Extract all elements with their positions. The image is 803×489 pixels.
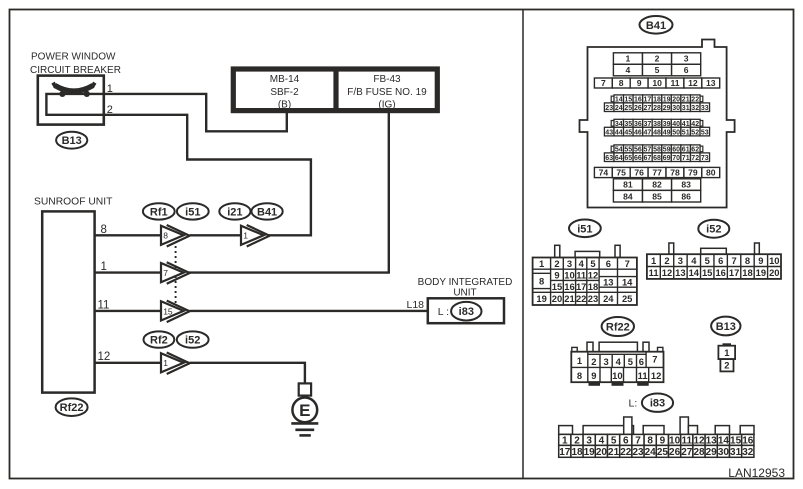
svg-text:28: 28 — [693, 447, 705, 458]
oval Rf22 sunroof connector — [56, 398, 88, 416]
svg-text:75: 75 — [616, 168, 626, 178]
i52 pins 1-10 — [651, 255, 780, 266]
body integrated unit box — [428, 298, 504, 323]
ground bars — [291, 423, 318, 435]
i51 pin 8 — [539, 276, 544, 287]
svg-text:9: 9 — [591, 370, 596, 381]
sunroof unit box — [42, 211, 94, 392]
svg-text:84: 84 — [623, 191, 633, 201]
oval Rf2 — [144, 331, 175, 347]
svg-text:Rf1: Rf1 — [150, 206, 168, 218]
oval i51 pinout title — [569, 220, 601, 238]
svg-text:21: 21 — [608, 447, 620, 458]
svg-text:7: 7 — [625, 258, 630, 269]
svg-text:27: 27 — [644, 105, 652, 112]
svg-text:17: 17 — [576, 281, 586, 292]
svg-text:74: 74 — [599, 168, 609, 178]
svg-text:9: 9 — [758, 255, 763, 266]
svg-text:i51: i51 — [577, 223, 592, 235]
svg-text:(IG): (IG) — [378, 100, 395, 111]
svg-text:31: 31 — [682, 105, 690, 112]
oval i51 — [177, 203, 209, 219]
svg-text:17: 17 — [729, 267, 739, 278]
svg-text:69: 69 — [663, 155, 671, 162]
svg-text:10: 10 — [612, 370, 622, 381]
svg-text:MB-14: MB-14 — [270, 74, 300, 85]
svg-text:i52: i52 — [706, 224, 721, 236]
oval i52 pinout title — [698, 220, 729, 238]
svg-text:i21: i21 — [227, 206, 242, 218]
wire breaker pin2 to sunroof row8 net — [104, 115, 311, 236]
svg-text:76: 76 — [634, 168, 644, 178]
label BODY INTEGRATED UNIT — [418, 277, 513, 299]
svg-text:86: 86 — [681, 191, 691, 201]
svg-text:80: 80 — [706, 168, 716, 178]
svg-text:L:: L: — [629, 398, 638, 410]
svg-text:24: 24 — [615, 105, 623, 112]
svg-text:L :: L : — [438, 306, 449, 318]
svg-text:1: 1 — [577, 355, 582, 366]
svg-text:5: 5 — [590, 258, 595, 269]
svg-text:32: 32 — [742, 447, 754, 458]
svg-text:1: 1 — [626, 54, 631, 64]
svg-text:SBF-2: SBF-2 — [270, 87, 299, 98]
connector arrow Rf1-i51 pin 7 — [161, 262, 190, 284]
svg-text:3: 3 — [678, 255, 683, 266]
svg-text:11: 11 — [98, 299, 110, 311]
B13 pin 2 — [724, 360, 729, 371]
svg-text:10: 10 — [769, 255, 779, 266]
i83 cells 1-16 — [559, 434, 754, 446]
svg-text:18: 18 — [742, 267, 752, 278]
ground circle E — [292, 398, 317, 423]
B41 cells 14-22 — [611, 95, 703, 104]
B41 cells 74-80 — [594, 167, 719, 177]
oval Rf22 pinout title — [602, 317, 634, 336]
B41 cells 81-83 — [613, 179, 700, 191]
fuse FB-43 labels — [347, 74, 427, 111]
fuse box MB-14 / FB-43 — [233, 69, 437, 111]
svg-text:23: 23 — [605, 105, 613, 112]
svg-text:F/B FUSE NO. 19: F/B FUSE NO. 19 — [347, 87, 427, 98]
svg-text:1: 1 — [101, 261, 107, 273]
svg-text:23: 23 — [588, 293, 598, 304]
B41 cells 63-73 — [604, 153, 709, 162]
svg-text:27: 27 — [681, 447, 693, 458]
svg-text:83: 83 — [681, 180, 691, 190]
svg-text:15: 15 — [702, 267, 712, 278]
label L: oval i83 in box — [438, 302, 482, 321]
svg-text:9: 9 — [637, 78, 642, 88]
svg-text:13: 13 — [706, 78, 716, 88]
svg-text:B13: B13 — [62, 135, 82, 147]
B41 cells 84-86 — [613, 190, 700, 202]
i52 grid lines — [647, 254, 781, 279]
svg-text:22: 22 — [576, 293, 586, 304]
oval Rf1 — [143, 203, 175, 219]
svg-text:85: 85 — [652, 191, 662, 201]
svg-text:3: 3 — [684, 54, 689, 64]
svg-text:8: 8 — [577, 370, 582, 381]
svg-text:B41: B41 — [257, 206, 277, 218]
svg-text:53: 53 — [701, 129, 709, 136]
B41 cells 1-3 — [613, 53, 700, 65]
svg-text:7: 7 — [731, 255, 736, 266]
svg-text:68: 68 — [653, 155, 661, 162]
svg-text:30: 30 — [718, 447, 730, 458]
svg-text:i51: i51 — [185, 206, 200, 218]
svg-text:2: 2 — [554, 258, 559, 269]
svg-text:FB-43: FB-43 — [373, 74, 401, 85]
B41 cells 54-62 — [611, 145, 703, 154]
connector arrow Rf1-i51 pin 8 — [161, 225, 190, 247]
breaker contact dots — [59, 91, 65, 97]
svg-text:6: 6 — [684, 65, 689, 75]
svg-text:12: 12 — [688, 78, 698, 88]
i52 pins 11-20 — [649, 267, 780, 278]
svg-text:E: E — [299, 401, 310, 420]
svg-text:26: 26 — [669, 447, 681, 458]
svg-text:65: 65 — [624, 155, 632, 162]
i83 cells 17-32 — [559, 445, 754, 458]
svg-text:i83: i83 — [459, 306, 474, 318]
svg-text:6: 6 — [639, 356, 644, 367]
wire between row8 connectors — [190, 234, 241, 236]
oval i21 — [219, 203, 250, 219]
svg-text:16: 16 — [715, 267, 725, 278]
svg-text:50: 50 — [672, 129, 680, 136]
svg-text:32: 32 — [691, 105, 699, 112]
svg-text:70: 70 — [672, 155, 680, 162]
connector oval B13 — [56, 132, 87, 149]
svg-text:8: 8 — [163, 231, 168, 241]
svg-text:11: 11 — [670, 78, 679, 88]
svg-text:7: 7 — [601, 78, 606, 88]
svg-text:5: 5 — [705, 255, 710, 266]
svg-text:46: 46 — [634, 129, 642, 136]
svg-text:4: 4 — [616, 356, 622, 367]
B13 pin 1 — [724, 347, 729, 358]
connector arrow i21-B41 pin 1 — [241, 225, 270, 247]
svg-text:64: 64 — [615, 155, 623, 162]
svg-text:24: 24 — [645, 447, 657, 458]
svg-text:B41: B41 — [646, 20, 666, 32]
svg-text:29: 29 — [663, 105, 671, 112]
svg-text:2: 2 — [655, 54, 660, 64]
svg-text:72: 72 — [691, 155, 699, 162]
svg-text:47: 47 — [644, 129, 652, 136]
svg-text:66: 66 — [634, 155, 642, 162]
svg-text:82: 82 — [652, 180, 662, 190]
svg-text:18: 18 — [571, 447, 583, 458]
svg-text:20: 20 — [769, 267, 779, 278]
svg-text:(B): (B) — [278, 100, 291, 111]
i51 pins 19-25 — [536, 293, 632, 304]
svg-text:B13: B13 — [716, 321, 736, 333]
svg-text:45: 45 — [624, 129, 632, 136]
svg-text:LAN12953: LAN12953 — [728, 466, 785, 480]
B41 cells 23-33 — [604, 103, 709, 112]
svg-text:22: 22 — [620, 447, 632, 458]
svg-text:4: 4 — [626, 65, 631, 75]
svg-text:10: 10 — [652, 78, 662, 88]
svg-text:31: 31 — [730, 447, 742, 458]
svg-text:1: 1 — [243, 231, 248, 241]
B41 cells 34-42 — [611, 119, 703, 128]
svg-text:12: 12 — [98, 351, 111, 363]
svg-text:18: 18 — [588, 281, 598, 292]
wire sunroof pin1 stub — [95, 271, 161, 273]
svg-text:6: 6 — [718, 255, 723, 266]
wire sunroof pin11 stub — [95, 310, 161, 312]
i51 pins 13-14 — [603, 277, 633, 288]
svg-text:POWER WINDOW: POWER WINDOW — [31, 52, 116, 63]
svg-text:9: 9 — [554, 269, 559, 280]
i51 grid lines — [533, 258, 637, 306]
connector arrow Rf2-i52 pin 1 — [161, 353, 190, 375]
svg-text:11: 11 — [576, 269, 586, 280]
svg-text:26: 26 — [634, 105, 642, 112]
svg-text:Rf2: Rf2 — [150, 335, 168, 347]
svg-text:51: 51 — [682, 129, 690, 136]
oval B41 pinout title — [640, 16, 673, 34]
svg-text:20: 20 — [596, 447, 608, 458]
svg-text:24: 24 — [603, 293, 614, 304]
svg-text:11: 11 — [649, 267, 659, 278]
svg-text:1: 1 — [539, 258, 544, 269]
svg-text:29: 29 — [706, 447, 718, 458]
svg-text:4: 4 — [691, 255, 697, 266]
connector Rf22 body with tabs — [571, 342, 663, 382]
wire breaker internal loop — [46, 94, 104, 115]
i51 pins 9-12 — [554, 269, 598, 280]
svg-text:73: 73 — [701, 155, 709, 162]
Rf22 pins row1 — [577, 355, 582, 366]
oval i83 pinout title — [642, 394, 673, 412]
svg-text:14: 14 — [689, 267, 700, 278]
wire breaker pin1 to fuse MB-14 — [104, 94, 287, 131]
i51 pins 15-18 — [552, 281, 598, 292]
connector B13 body — [718, 343, 735, 371]
dotted tie line between connectors — [175, 246, 177, 303]
i51 pins 1-7 — [539, 258, 630, 269]
svg-text:14: 14 — [622, 277, 633, 288]
Rf22 pins row2 — [577, 370, 582, 381]
svg-text:5: 5 — [655, 65, 660, 75]
svg-text:BODY INTEGRATED: BODY INTEGRATED — [418, 277, 513, 288]
wire sunroof pin8 stub — [95, 234, 161, 236]
oval B41 — [252, 203, 283, 219]
svg-text:81: 81 — [623, 180, 633, 190]
connector B41 body outline — [580, 40, 735, 208]
svg-text:67: 67 — [644, 155, 652, 162]
svg-text:1: 1 — [724, 347, 729, 358]
B41 cells 4-6 — [613, 64, 700, 76]
svg-text:5: 5 — [628, 356, 633, 367]
svg-text:52: 52 — [691, 129, 699, 136]
svg-text:71: 71 — [682, 155, 690, 162]
svg-text:15: 15 — [552, 281, 562, 292]
svg-text:2: 2 — [591, 356, 596, 367]
svg-text:79: 79 — [688, 168, 698, 178]
svg-text:11: 11 — [638, 370, 648, 381]
svg-text:63: 63 — [605, 155, 613, 162]
svg-text:33: 33 — [701, 105, 709, 112]
wire sunroof pin12 stub — [95, 362, 161, 364]
svg-text:8: 8 — [101, 224, 107, 236]
wire fuse FB-43 to sunroof row1 net — [189, 111, 389, 273]
Rf22 grid lines — [571, 352, 663, 383]
svg-text:L18: L18 — [407, 299, 425, 311]
svg-text:4: 4 — [579, 258, 585, 269]
B41 cells 7-13 — [594, 78, 719, 88]
circuit breaker B13 box — [38, 76, 104, 125]
wire row11 to body integrated unit — [190, 310, 428, 312]
svg-text:25: 25 — [657, 447, 669, 458]
svg-text:12: 12 — [651, 370, 661, 381]
ground terminal box — [299, 383, 311, 395]
svg-text:16: 16 — [564, 281, 574, 292]
svg-text:49: 49 — [663, 129, 671, 136]
svg-text:7: 7 — [652, 353, 657, 364]
svg-text:12: 12 — [588, 269, 598, 280]
svg-text:28: 28 — [653, 105, 661, 112]
svg-text:7: 7 — [163, 268, 168, 278]
svg-text:Rf22: Rf22 — [606, 322, 630, 334]
svg-text:48: 48 — [653, 129, 661, 136]
svg-text:15: 15 — [163, 306, 173, 316]
svg-text:23: 23 — [632, 447, 644, 458]
circuit breaker bimetal element — [55, 85, 93, 91]
svg-text:78: 78 — [670, 168, 680, 178]
svg-text:19: 19 — [584, 447, 596, 458]
svg-text:3: 3 — [567, 258, 572, 269]
svg-text:2: 2 — [724, 360, 729, 371]
connector i51 body with tabs — [533, 245, 637, 305]
svg-text:SUNROOF UNIT: SUNROOF UNIT — [34, 197, 113, 208]
svg-text:44: 44 — [615, 129, 623, 136]
svg-text:13: 13 — [675, 267, 685, 278]
svg-text:43: 43 — [605, 129, 613, 136]
connector i83 tabs — [559, 417, 754, 434]
svg-text:8: 8 — [539, 276, 544, 287]
svg-text:77: 77 — [652, 168, 662, 178]
connector i52 body with tabs — [647, 243, 781, 279]
Rf22 bottom feet — [589, 381, 649, 386]
svg-text:20: 20 — [552, 293, 562, 304]
wire row12 to ground — [190, 363, 305, 384]
oval B13 pinout title — [711, 317, 740, 336]
svg-text:25: 25 — [624, 105, 632, 112]
svg-text:Rf22: Rf22 — [60, 402, 84, 414]
svg-text:2: 2 — [664, 255, 669, 266]
svg-text:1: 1 — [163, 358, 168, 368]
svg-text:i83: i83 — [650, 398, 665, 410]
svg-text:13: 13 — [603, 277, 613, 288]
svg-text:i52: i52 — [185, 335, 200, 347]
svg-text:1: 1 — [651, 255, 656, 266]
svg-text:3: 3 — [603, 356, 608, 367]
svg-text:12: 12 — [662, 267, 672, 278]
svg-text:6: 6 — [606, 258, 611, 269]
svg-text:19: 19 — [756, 267, 766, 278]
svg-text:10: 10 — [564, 269, 574, 280]
B41 cells 43-53 — [604, 127, 709, 136]
oval i52 — [177, 331, 209, 347]
svg-text:25: 25 — [622, 293, 632, 304]
fuse MB-14 labels — [270, 74, 300, 111]
svg-text:8: 8 — [745, 255, 750, 266]
svg-text:21: 21 — [564, 293, 574, 304]
svg-text:19: 19 — [536, 293, 546, 304]
connector arrow Rf1-i51 pin 15 — [161, 301, 190, 323]
svg-text:8: 8 — [619, 78, 624, 88]
svg-text:30: 30 — [672, 105, 680, 112]
svg-text:17: 17 — [559, 447, 571, 458]
